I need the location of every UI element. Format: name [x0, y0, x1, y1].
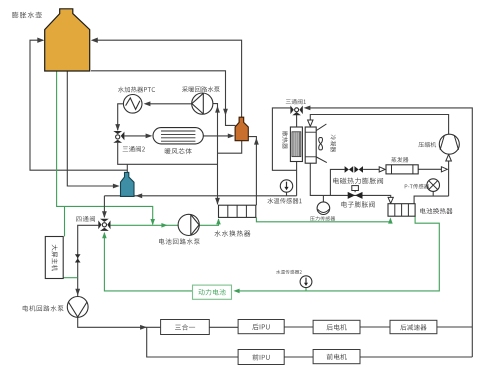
label water heater PTC: [118, 87, 155, 93]
wire: P-T sensor stub: [432, 191, 434, 196]
label motor loop pump: [23, 305, 64, 311]
wire: warm tank bottom loop to riser: [218, 141, 242, 154]
label display host (rotated): [52, 245, 58, 271]
wire: row2 links: [284, 356, 313, 358]
wire: green tee down to display-host box: [64, 206, 66, 236]
water heater PTC: [123, 95, 142, 114]
pressure sensor: [317, 202, 330, 215]
wire: heating pump outlet to PTC (leftward arrow): [150, 103, 192, 105]
rear motor box: [313, 320, 360, 333]
heater core (暖风芯体): [153, 128, 203, 144]
label power battery: [198, 289, 225, 295]
wire: compressor suction riser: [448, 156, 450, 197]
label heating loop pump: [182, 86, 220, 92]
wire: expansion tank right feed from warm-tank neck: [93, 40, 242, 117]
wire: 4-way valve left port to motor pump: [78, 225, 99, 297]
wire: main water return line y=195.8 (radiator to degas bottle): [104, 195, 296, 197]
label front motor: [327, 354, 347, 360]
wire: branch down to front row: [147, 327, 238, 357]
battery chiller heat exchanger: [388, 204, 415, 217]
compressor: [439, 134, 459, 154]
condenser fan blades: [319, 138, 323, 150]
wire: heating pump inlet riser x=217.5 with up arrow: [213, 104, 218, 205]
power battery box (green): [193, 285, 232, 299]
label condenser (rotated): [331, 135, 336, 152]
wire: degas bottle neck riser: [126, 164, 128, 172]
wire: green battery pump to water-water HX bottom: [199, 219, 218, 225]
motor loop pump: [67, 297, 88, 318]
wire: expansion tank bottom gray line to degas bottle left port: [67, 71, 113, 186]
wire: radiator bottom to main water line: [296, 162, 298, 196]
rear reducer box: [390, 320, 437, 333]
condenser fan shroud diagonals: [316, 124, 326, 131]
wire: warm tank right port down to water-water HX top: [248, 137, 256, 206]
label 3-in-1: [175, 324, 195, 330]
label radiator (rotated): [282, 131, 288, 149]
3-in-1 drive box: [161, 320, 210, 335]
P-T sensor: [427, 179, 440, 192]
evaporator (蒸发器): [386, 165, 418, 174]
radiator (散热器): [290, 127, 302, 162]
label electronic expansion valve: [341, 201, 374, 207]
wire: evaporator outlet to suction riser: [418, 168, 441, 170]
label water-water HX: [214, 230, 250, 236]
warm circuit tank (orange): [235, 117, 248, 141]
wire: right rail up to 3-way valve 1 line: [310, 108, 473, 357]
front IPU box: [238, 350, 284, 365]
label compressor: [419, 142, 437, 147]
degas bottle (teal): [121, 172, 135, 196]
label rear reducer: [400, 324, 426, 330]
wire: chiller outlet to suction line: [414, 196, 449, 204]
wire: condenser feed from compressor top: [310, 115, 448, 135]
wire: expansion tank bottom green standpipe to battery-loop line: [57, 71, 153, 225]
label battery chiller: [420, 208, 452, 214]
heating loop pump: [192, 93, 213, 114]
wire: heater core outlet to warm tank lower-left port: [203, 135, 228, 137]
label heater core: [165, 148, 192, 154]
battery loop pump: [178, 214, 199, 235]
front motor box: [313, 350, 360, 364]
label front IPU: [252, 354, 269, 360]
wire: valve1 left port bypass loop to radiator bottom: [272, 108, 296, 170]
label rear IPU: [252, 324, 269, 330]
wire: green battery to 4-way valve bottom: [104, 233, 192, 291]
wire: valve1 bottom to radiator top: [296, 115, 298, 127]
wire: valve2 right port to heater core: [124, 135, 146, 137]
wire: motor pump outlet to drive unit row: [78, 317, 161, 328]
water temp sensor 2: [300, 276, 312, 288]
label solenoid expansion valve: [333, 178, 383, 184]
wire: water temp sensor1 stub: [286, 192, 288, 196]
solenoid thermal expansion valve (double bowtie): [345, 166, 363, 173]
label 4-way valve: [76, 216, 95, 222]
wire: green display-host right port to motor pump line: [63, 277, 77, 279]
label rear motor: [327, 324, 347, 330]
wire: row1 links: [209, 326, 238, 328]
label 3-way valve 2: [123, 146, 145, 152]
wire: branch up through solenoid expansion valve to evaporator: [330, 169, 344, 195]
display host box: [45, 237, 63, 279]
wire: expansion tank left feed (from heater-core return line): [30, 40, 127, 170]
electronic expansion valve: [348, 192, 363, 199]
label 3-way valve 1: [286, 99, 306, 104]
wire: drop to 4-way valve: [103, 196, 105, 217]
wire: green HX bottom-right long line to chiller bottom: [256, 217, 390, 221]
expansion tank (膨胀水壶): [45, 9, 90, 71]
label water temp sensor 1: [267, 198, 301, 204]
wire: green chiller bottom-right return to power battery: [239, 216, 439, 291]
rear IPU box: [238, 320, 284, 334]
wire: valve2 bottom port line across to riser: [118, 143, 218, 165]
wire: PTC left port down to 3-way valve 2: [118, 104, 123, 130]
label expansion tank: [12, 12, 42, 18]
3-way valve 2: [113, 131, 124, 143]
label P-T sensor: [405, 184, 429, 189]
water temp sensor 1: [280, 180, 292, 192]
wire: condenser bottom liquid line: [310, 163, 390, 197]
label water temp sensor 2: [276, 270, 302, 274]
wire: green water temp sensor2 stub: [305, 288, 307, 291]
wire: tank bottom-right line down to warm tank upper-left port: [91, 71, 236, 126]
4-way valve: [98, 219, 110, 231]
wire: green battery loop: valve right to battery pump: [111, 224, 179, 226]
label evaporator: [391, 157, 408, 162]
wire: pressure sensor stub: [322, 195, 324, 202]
3-way valve 1: [290, 106, 302, 116]
label pressure sensor: [310, 216, 335, 221]
label battery loop pump: [159, 238, 200, 244]
condenser (冷凝器): [305, 127, 316, 163]
water-water heat exchanger: [219, 205, 256, 217]
